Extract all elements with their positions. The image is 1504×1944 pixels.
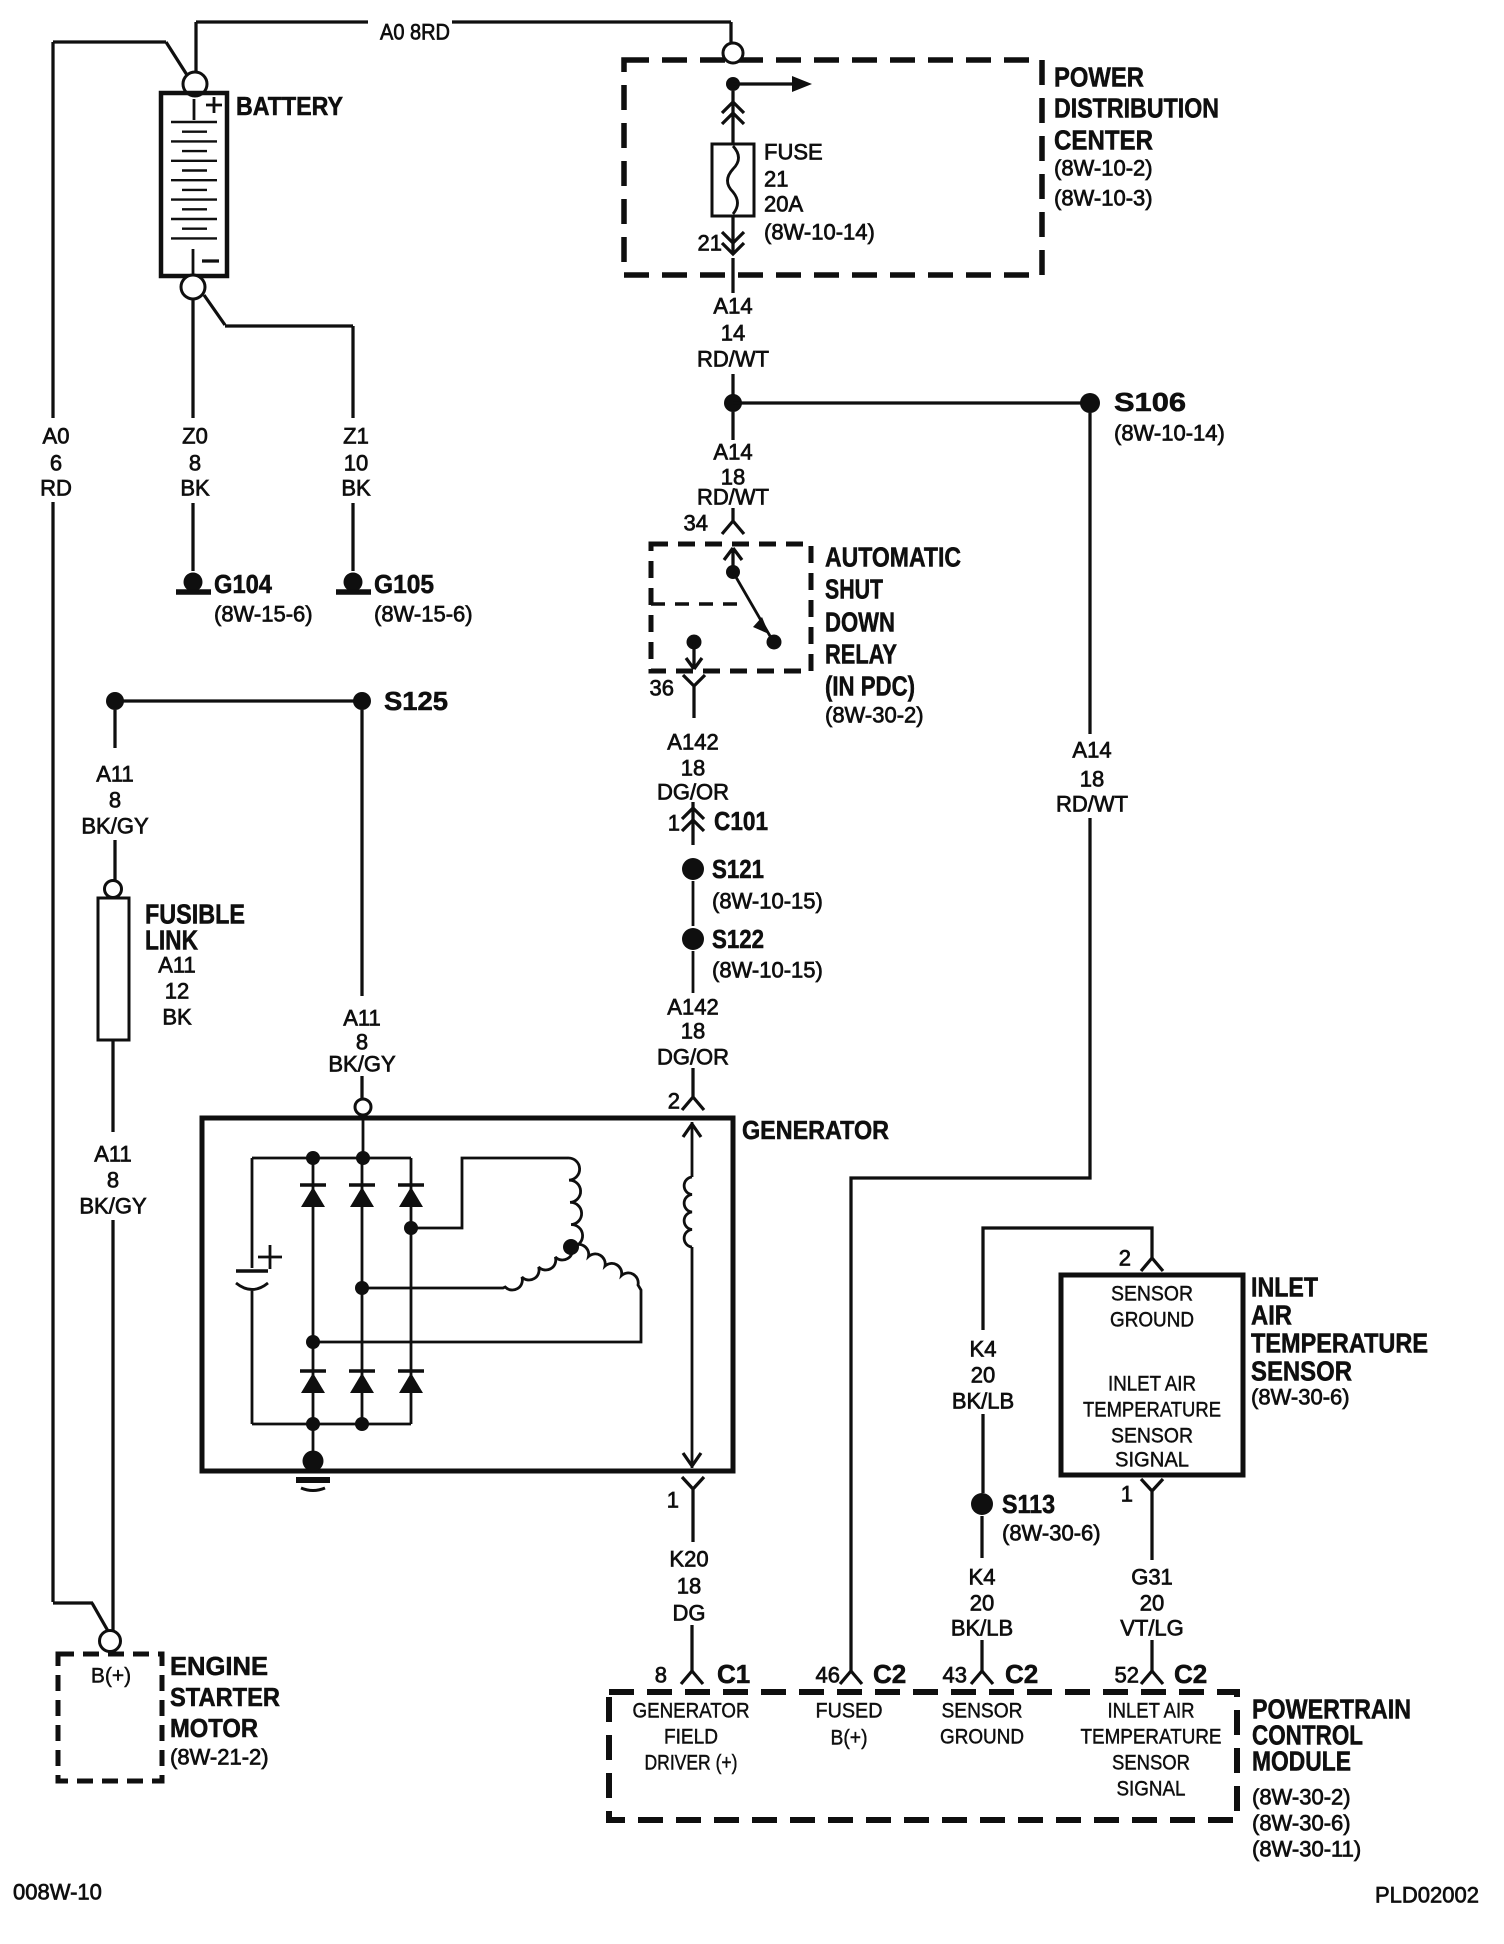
svg-text:CENTER: CENTER <box>1054 125 1153 156</box>
svg-text:1: 1 <box>668 811 680 836</box>
svg-text:S121: S121 <box>712 854 764 884</box>
svg-text:A142: A142 <box>667 995 718 1020</box>
svg-text:18: 18 <box>681 1019 705 1044</box>
svg-text:1: 1 <box>667 1488 679 1513</box>
svg-text:12: 12 <box>165 979 189 1004</box>
svg-text:FUSE: FUSE <box>764 140 823 165</box>
svg-text:18: 18 <box>681 756 705 781</box>
svg-text:C2: C2 <box>1174 1659 1207 1689</box>
svg-text:RD/WT: RD/WT <box>697 347 769 372</box>
svg-text:S113: S113 <box>1002 1489 1055 1519</box>
svg-text:A11: A11 <box>158 953 196 978</box>
svg-text:STARTER: STARTER <box>170 1682 280 1712</box>
svg-text:20: 20 <box>970 1591 994 1616</box>
svg-text:A11: A11 <box>94 1142 132 1167</box>
svg-text:(8W-30-6): (8W-30-6) <box>1002 1521 1101 1546</box>
svg-text:DG: DG <box>673 1601 706 1626</box>
svg-text:C2: C2 <box>1005 1659 1038 1689</box>
svg-text:MOTOR: MOTOR <box>170 1713 258 1743</box>
svg-text:46: 46 <box>816 1663 840 1688</box>
svg-text:SENSOR: SENSOR <box>1251 1356 1352 1387</box>
svg-text:BK/GY: BK/GY <box>328 1052 396 1077</box>
svg-text:GENERATOR: GENERATOR <box>633 1700 750 1723</box>
svg-text:S106: S106 <box>1114 387 1186 417</box>
svg-text:G104: G104 <box>214 569 272 599</box>
svg-text:S125: S125 <box>384 686 448 716</box>
svg-text:C1: C1 <box>717 1659 750 1689</box>
svg-text:21: 21 <box>764 167 788 192</box>
svg-text:SHUT: SHUT <box>825 574 883 605</box>
svg-text:(8W-10-2): (8W-10-2) <box>1054 156 1153 181</box>
svg-text:K4: K4 <box>969 1565 996 1590</box>
svg-text:S122: S122 <box>712 924 764 954</box>
svg-text:B(+): B(+) <box>91 1665 131 1688</box>
svg-text:8: 8 <box>109 788 121 813</box>
svg-text:2: 2 <box>1119 1246 1131 1271</box>
svg-text:A14: A14 <box>713 440 752 465</box>
svg-text:BK/GY: BK/GY <box>79 1194 147 1219</box>
svg-text:SIGNAL: SIGNAL <box>1115 1449 1189 1472</box>
svg-text:GROUND: GROUND <box>940 1726 1024 1749</box>
svg-text:DG/OR: DG/OR <box>657 780 729 805</box>
svg-text:DISTRIBUTION: DISTRIBUTION <box>1054 93 1219 124</box>
svg-text:RD/WT: RD/WT <box>1056 792 1128 817</box>
svg-text:C2: C2 <box>873 1659 906 1689</box>
svg-text:A11: A11 <box>343 1006 381 1031</box>
svg-text:A0: A0 <box>43 424 70 449</box>
svg-text:TEMPERATURE: TEMPERATURE <box>1251 1328 1428 1359</box>
svg-text:MODULE: MODULE <box>1252 1746 1351 1777</box>
svg-text:(8W-30-2): (8W-30-2) <box>1252 1785 1351 1810</box>
svg-text:43: 43 <box>943 1663 967 1688</box>
svg-text:36: 36 <box>650 676 674 701</box>
svg-text:(8W-10-15): (8W-10-15) <box>712 958 823 983</box>
svg-text:8: 8 <box>107 1168 119 1193</box>
svg-text:18: 18 <box>677 1574 701 1599</box>
svg-text:A142: A142 <box>667 730 718 755</box>
svg-text:(8W-10-14): (8W-10-14) <box>764 220 875 245</box>
svg-text:A14: A14 <box>713 294 752 319</box>
svg-text:AUTOMATIC: AUTOMATIC <box>825 542 961 573</box>
svg-text:PLD02002: PLD02002 <box>1375 1883 1479 1908</box>
svg-text:B(+): B(+) <box>831 1727 868 1750</box>
svg-text:8: 8 <box>189 451 201 476</box>
svg-text:VT/LG: VT/LG <box>1120 1616 1184 1641</box>
svg-text:RD/WT: RD/WT <box>697 485 769 510</box>
svg-text:SENSOR: SENSOR <box>1112 1752 1190 1775</box>
svg-text:GENERATOR: GENERATOR <box>742 1115 889 1145</box>
svg-text:SENSOR: SENSOR <box>942 1700 1023 1723</box>
svg-text:SIGNAL: SIGNAL <box>1117 1778 1186 1801</box>
svg-text:TEMPERATURE: TEMPERATURE <box>1081 1726 1222 1749</box>
svg-text:A14: A14 <box>1072 738 1111 763</box>
svg-text:G31: G31 <box>1131 1565 1173 1590</box>
svg-text:FUSED: FUSED <box>816 1700 883 1723</box>
svg-text:(IN PDC): (IN PDC) <box>825 671 915 702</box>
svg-text:BK/LB: BK/LB <box>952 1389 1014 1414</box>
svg-text:(8W-10-15): (8W-10-15) <box>712 889 823 914</box>
svg-text:(8W-30-6): (8W-30-6) <box>1251 1385 1350 1410</box>
svg-text:G105: G105 <box>374 569 434 599</box>
svg-text:LINK: LINK <box>145 925 198 956</box>
svg-text:BK/GY: BK/GY <box>81 814 149 839</box>
svg-text:BK: BK <box>162 1005 192 1030</box>
svg-text:(8W-10-14): (8W-10-14) <box>1114 421 1225 446</box>
svg-text:SENSOR: SENSOR <box>1111 1283 1193 1306</box>
svg-text:Z1: Z1 <box>343 424 369 449</box>
svg-text:INLET AIR: INLET AIR <box>1108 1373 1196 1396</box>
svg-text:DRIVER (+): DRIVER (+) <box>645 1752 738 1775</box>
svg-text:A11: A11 <box>96 762 134 787</box>
svg-text:INLET AIR: INLET AIR <box>1108 1700 1195 1723</box>
svg-text:20: 20 <box>971 1363 995 1388</box>
svg-text:GROUND: GROUND <box>1110 1309 1194 1332</box>
svg-text:RELAY: RELAY <box>825 639 897 670</box>
svg-text:A0 8RD: A0 8RD <box>380 20 450 45</box>
svg-text:1: 1 <box>1121 1482 1133 1507</box>
svg-text:RD: RD <box>40 476 72 501</box>
svg-text:(8W-21-2): (8W-21-2) <box>170 1745 269 1770</box>
svg-text:10: 10 <box>344 451 368 476</box>
svg-text:TEMPERATURE: TEMPERATURE <box>1083 1399 1221 1422</box>
svg-text:(8W-30-6): (8W-30-6) <box>1252 1811 1351 1836</box>
svg-text:DOWN: DOWN <box>825 607 895 638</box>
svg-text:(8W-15-6): (8W-15-6) <box>214 602 313 627</box>
svg-text:2: 2 <box>668 1089 680 1114</box>
svg-text:K4: K4 <box>970 1337 997 1362</box>
svg-text:C101: C101 <box>714 806 768 836</box>
svg-text:008W-10: 008W-10 <box>13 1880 102 1905</box>
svg-text:(8W-10-3): (8W-10-3) <box>1054 186 1153 211</box>
svg-text:ENGINE: ENGINE <box>170 1651 268 1681</box>
svg-text:20A: 20A <box>764 192 803 217</box>
svg-text:SENSOR: SENSOR <box>1111 1425 1193 1448</box>
svg-text:AIR: AIR <box>1251 1300 1292 1331</box>
svg-text:20: 20 <box>1140 1591 1164 1616</box>
svg-text:34: 34 <box>684 511 708 536</box>
svg-text:POWER: POWER <box>1054 62 1144 93</box>
svg-text:14: 14 <box>721 321 745 346</box>
svg-text:21: 21 <box>698 231 722 256</box>
svg-text:(8W-30-2): (8W-30-2) <box>825 703 924 728</box>
svg-text:K20: K20 <box>669 1547 708 1572</box>
svg-text:BK: BK <box>180 476 210 501</box>
svg-text:18: 18 <box>1080 767 1104 792</box>
svg-text:FIELD: FIELD <box>664 1726 718 1749</box>
svg-text:Z0: Z0 <box>182 424 208 449</box>
svg-text:8: 8 <box>655 1663 667 1688</box>
svg-text:DG/OR: DG/OR <box>657 1045 729 1070</box>
svg-text:52: 52 <box>1115 1663 1139 1688</box>
svg-text:(8W-30-11): (8W-30-11) <box>1252 1837 1361 1862</box>
svg-text:BATTERY: BATTERY <box>236 91 343 121</box>
svg-text:BK: BK <box>341 476 371 501</box>
svg-text:6: 6 <box>50 451 62 476</box>
svg-text:BK/LB: BK/LB <box>951 1616 1013 1641</box>
svg-text:(8W-15-6): (8W-15-6) <box>374 602 473 627</box>
svg-text:INLET: INLET <box>1251 1272 1318 1303</box>
